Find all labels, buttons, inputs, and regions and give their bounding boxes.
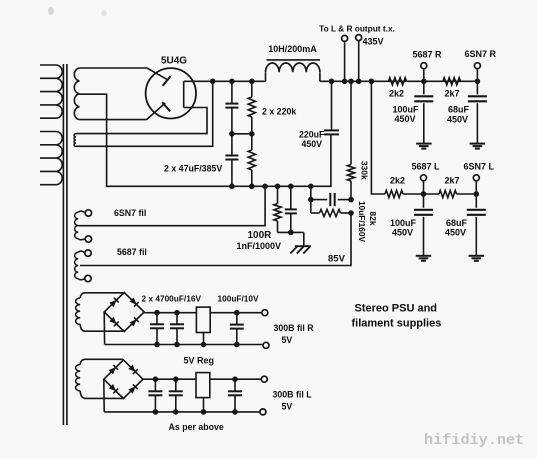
svg-text:10H/200mA: 10H/200mA [268, 44, 317, 54]
terminal 6SN7 R [474, 63, 480, 82]
transformer primary winding (upper) [40, 65, 62, 118]
svg-text:2k7: 2k7 [445, 176, 460, 186]
capacitor C9 68uF/450V (L) [467, 194, 486, 255]
svg-text:5V: 5V [282, 335, 293, 345]
label title line 1 [355, 303, 438, 315]
label 6SN7 R [465, 49, 497, 59]
transformer 5687 fil winding [75, 251, 85, 280]
resistor R1 220k (upper) [248, 81, 255, 134]
scan smudge [48, 7, 107, 16]
svg-text:300B fil R: 300B fil R [274, 323, 315, 333]
terminal 300B fil L - [260, 409, 266, 415]
label 82k [368, 211, 378, 225]
node 6SN7 R supply [475, 79, 481, 85]
wire BR2 minus to 0V rail [103, 379, 105, 412]
label 300B fil R [274, 323, 315, 333]
wire ground-lift bottom [278, 231, 304, 233]
svg-text:As per above: As per above [169, 422, 224, 432]
wire 0V rail [232, 134, 331, 186]
ground C7 [470, 144, 486, 149]
node stack mid C [229, 131, 235, 137]
capacitor C2 47uF/385V (lower) [225, 134, 238, 187]
node 100R top [275, 184, 281, 190]
svg-text:82k: 82k [368, 211, 378, 225]
watermark hifidiy.net [424, 431, 524, 449]
terminal 300B fil R + [262, 310, 268, 316]
svg-text:Stereo PSU and: Stereo PSU and [355, 303, 438, 315]
node BR2 cap1 [153, 376, 159, 382]
node BR2 cap2 [173, 376, 179, 382]
capacitor C5 1nF/1000V [285, 186, 297, 232]
node rail cap3 [234, 342, 240, 348]
svg-text:68uF: 68uF [448, 105, 470, 115]
node 5687 R supply [421, 79, 427, 85]
node junction 5U4G output [210, 79, 216, 85]
label 100uF/10V (R) [218, 294, 260, 304]
svg-text:10uF/160V: 10uF/160V [357, 201, 367, 243]
wire BR2 plus rail [143, 378, 261, 380]
svg-text:85V: 85V [328, 254, 346, 265]
label 5V (L) [282, 402, 293, 412]
label 5687 fil [117, 247, 147, 257]
svg-text:5687 L: 5687 L [412, 162, 441, 172]
label 2 x 220k [262, 107, 296, 117]
svg-text:5687 fil: 5687 fil [117, 247, 147, 257]
label 68uF (R) [448, 105, 470, 115]
node rail cap1 [154, 342, 160, 348]
svg-text:2 x 4700uF/16V: 2 x 4700uF/16V [142, 294, 202, 304]
node rail2 cap3 [232, 409, 238, 415]
node L feed [369, 79, 375, 85]
wire BR1 plus rail [144, 312, 262, 314]
capacitor C1 47uF/385V (upper) [225, 81, 238, 134]
label 100uF (R) [393, 105, 420, 115]
terminal 5687 fil bottom [85, 275, 91, 281]
resistor R3 330k [347, 81, 354, 199]
wire mid junction of stacks [232, 133, 252, 135]
5U4G top plate (anode 1) [147, 68, 171, 86]
wire 6SN7 fil center tap to 0V rail [78, 186, 265, 225]
label title line 2 [352, 318, 442, 330]
node stack top R [249, 79, 255, 85]
label 450V (R1) [395, 114, 416, 124]
wire fil L 0V rail [104, 411, 260, 413]
node rail2 cap2 [173, 409, 179, 415]
wire main B+ bus (right of choke) [320, 80, 478, 82]
label 450V (L2) [445, 228, 466, 238]
transformer 6SN7 fil winding [75, 211, 86, 240]
wire BR1 minus to 0V rail [103, 312, 105, 345]
svg-text:450V: 450V [445, 228, 466, 238]
resistor R4 82k [311, 209, 351, 216]
node R t.x. tap [356, 79, 362, 85]
node BR1 cap3 [234, 310, 240, 316]
svg-text:2 x 47uF/385V: 2 x 47uF/385V [164, 164, 222, 174]
label 2k7 (L) [445, 176, 460, 186]
label 2k2 (R) [389, 89, 404, 99]
transformer HV secondary winding [74, 68, 147, 120]
wire HV center tap to 0V rail [79, 94, 232, 186]
wire main B+ bus (left of choke) [184, 80, 266, 82]
node rail2 reg [201, 409, 207, 415]
terminal 5687 L [421, 175, 427, 194]
label 5U4G [161, 56, 187, 67]
svg-text:330k: 330k [360, 161, 370, 180]
svg-text:1nF/1000V: 1nF/1000V [237, 241, 282, 251]
node stack top C [229, 79, 235, 85]
capacitor C14 4700uF (L b) [169, 379, 183, 412]
label 220uF [299, 130, 325, 140]
node BR2 cap3 [232, 376, 238, 382]
label 1nF/1000V [237, 241, 282, 251]
terminal 300B fil R - [263, 342, 269, 348]
capacitor C11 4700uF (R b) [170, 313, 184, 345]
regulator U2 5V Reg (R) [196, 307, 210, 344]
svg-text:450V: 450V [302, 139, 323, 149]
ground C6 [416, 144, 432, 149]
svg-text:450V: 450V [447, 115, 468, 125]
svg-text:100R: 100R [248, 230, 273, 241]
terminal 6SN7 fil top [85, 210, 91, 216]
terminal 5687 fil top [85, 250, 91, 256]
node ground-lift junction [288, 230, 294, 236]
node stack bottom R [249, 184, 255, 190]
chassis ground [290, 232, 311, 253]
wire 2k2L to node [403, 193, 439, 195]
resistor R9 2k7 (L) [439, 190, 457, 197]
svg-text:6SN7 R: 6SN7 R [465, 49, 497, 59]
label 450V (R2) [447, 115, 468, 125]
capacitor C7 68uF/450V (R) [468, 81, 487, 143]
label 10H/200mA [268, 44, 317, 54]
capacitor C4 10uF/160V [311, 193, 351, 206]
resistor R6 2k2 (R) [389, 78, 407, 85]
label 450V (L1) [392, 228, 413, 238]
svg-text:5687 R: 5687 R [413, 50, 443, 60]
svg-text:300B fil L: 300B fil L [273, 390, 313, 400]
svg-text:2 x 220k: 2 x 220k [262, 107, 296, 117]
svg-text:hifidiy.net: hifidiy.net [424, 431, 524, 449]
label 5V Reg [184, 356, 215, 366]
label 5V (R) [282, 335, 293, 345]
node 1nF top [288, 184, 294, 190]
node rail2 cap1 [153, 409, 159, 415]
5U4G bottom plate (anode 2) [147, 102, 171, 119]
capacitor C13 4700uF (L a) [148, 379, 162, 412]
5U4G filament (cathode) [183, 81, 185, 107]
svg-text:2k7: 2k7 [445, 89, 460, 99]
svg-text:450V: 450V [392, 228, 413, 238]
transformer primary winding (lower) [40, 132, 62, 185]
capacitor C8 100uF/450V (L) [414, 194, 433, 255]
wire 2k7L to node [457, 193, 477, 195]
bridge rectifier BR2 [104, 360, 143, 399]
label 68uF (L) [446, 218, 468, 228]
node choke output [329, 79, 335, 85]
transformer T1 core [63, 64, 67, 425]
capacitor C15 100uF/10V (L) [228, 379, 242, 412]
node 330k top [348, 79, 354, 85]
svg-text:100uF: 100uF [390, 218, 417, 228]
wire fil R 0V rail [105, 344, 263, 346]
node cap left [308, 197, 314, 203]
terminal 300B fil L + [261, 376, 267, 382]
node 82k right [348, 210, 354, 216]
svg-text:5U4G: 5U4G [161, 56, 187, 67]
capacitor C10 4700uF (R a) [150, 313, 164, 345]
rectifier tube U1 5U4G envelope [146, 68, 196, 118]
svg-text:100uF: 100uF [393, 105, 420, 115]
label 5687 L [412, 162, 441, 172]
node cap right / 85V node [348, 197, 354, 203]
label 5687 R [413, 50, 443, 60]
svg-text:6SN7 L: 6SN7 L [464, 162, 495, 172]
label To L & R output t.x. [319, 24, 395, 34]
node rail cap2 [174, 342, 180, 348]
node stack mid R [249, 131, 255, 137]
terminal 5687 R [421, 63, 427, 82]
node stack bottom C [229, 184, 235, 190]
resistor R7 2k7 (R) [443, 78, 461, 85]
inductor L1 10H/200mA choke [266, 60, 321, 81]
wire 5V winding bottom to B+ node [76, 81, 213, 146]
label 435V [363, 37, 384, 47]
label 100R [248, 230, 273, 241]
label 85V [328, 254, 346, 265]
label 2k2 (L) [390, 176, 405, 186]
wire divider left branch [310, 186, 312, 213]
node BR1 cap1 [154, 310, 160, 316]
svg-text:5V: 5V [282, 402, 293, 412]
resistor R8 2k2 (L) [385, 190, 403, 197]
svg-text:2k2: 2k2 [390, 176, 405, 186]
node 6SN7 tap on 0V rail [262, 184, 268, 190]
svg-text:435V: 435V [363, 37, 384, 47]
bridge rectifier BR1 [104, 293, 144, 332]
capacitor C12 100uF/10V (R) [230, 313, 244, 345]
label 330k [360, 161, 370, 180]
label 2 x 47uF/385V [164, 164, 222, 174]
regulator U3 5V Reg (L) [196, 373, 210, 412]
ground C8 [416, 256, 431, 261]
capacitor C3 220uF/450V [324, 81, 339, 134]
node 5687 L supply [421, 191, 427, 197]
wire 5V winding top to filament [76, 108, 207, 134]
svg-text:filament supplies: filament supplies [352, 318, 442, 330]
svg-text:5V Reg: 5V Reg [184, 356, 215, 366]
ground C9 [469, 256, 485, 261]
label 2k7 (R) [445, 89, 460, 99]
wire 85V rail [80, 213, 351, 266]
resistor R2 220k (lower) [248, 134, 255, 187]
terminal 6SN7 L [473, 175, 479, 194]
terminal To R output t.x. (435V) [356, 35, 362, 82]
transformer 5V winding (5U4G filament) [74, 134, 76, 147]
label 6SN7 fil [114, 208, 146, 218]
terminal 6SN7 fil bottom [85, 236, 91, 242]
node divider on 0V rail [308, 184, 314, 190]
terminal To L output t.x. [342, 35, 348, 81]
capacitor C6 100uF/450V (R) [414, 81, 433, 143]
svg-text:220uF: 220uF [299, 130, 325, 140]
svg-text:To L & R output t.x.: To L & R output t.x. [319, 24, 395, 34]
wire L-channel feed [371, 81, 385, 194]
node L t.x. tap [342, 79, 348, 85]
svg-text:450V: 450V [395, 114, 416, 124]
node rail reg [201, 342, 207, 348]
transformer 300B-R winding [76, 293, 124, 331]
node 6SN7 L supply [474, 191, 480, 197]
label 450V (220uF) [302, 139, 323, 149]
resistor R5 100R [274, 186, 281, 232]
label 300B fil L [273, 390, 313, 400]
svg-text:6SN7 fil: 6SN7 fil [114, 208, 146, 218]
label As per above [169, 422, 224, 432]
label 6SN7 L [464, 162, 495, 172]
node BR1 cap2 [174, 310, 180, 316]
label 100uF (L) [390, 218, 417, 228]
label 2 x 4700uF/16V [142, 294, 202, 304]
svg-text:100uF/10V: 100uF/10V [218, 294, 260, 304]
svg-text:68uF: 68uF [446, 218, 468, 228]
svg-text:2k2: 2k2 [389, 89, 404, 99]
label 10uF/160V [357, 201, 367, 243]
transformer 300B-L winding [76, 359, 124, 398]
